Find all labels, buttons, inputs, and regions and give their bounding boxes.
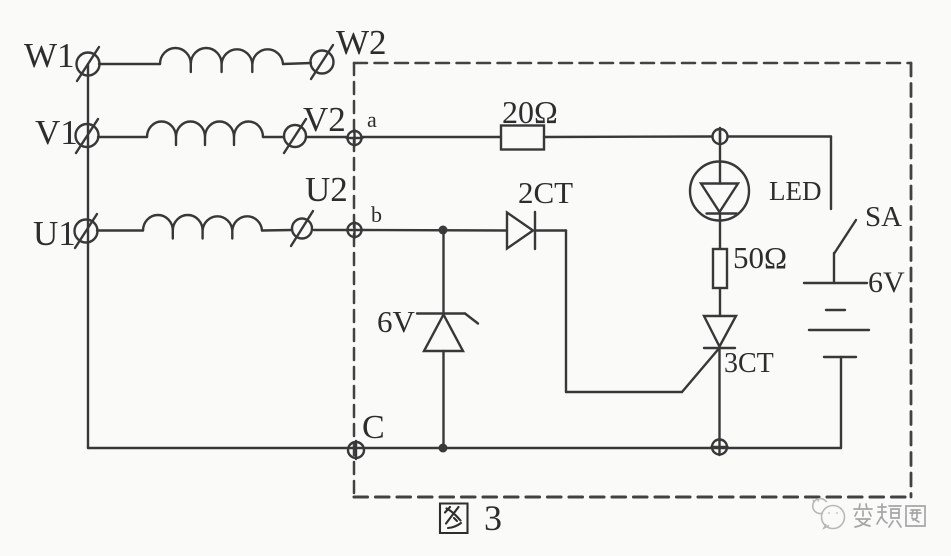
node a terminal [347,130,363,146]
wire U1 to coil [97,229,143,231]
svg-text:6V: 6V [868,266,905,299]
dashed enclosure box [354,63,911,497]
LED top node terminal [713,128,728,145]
wire resistor to thyristor [719,288,721,316]
resistor 20ohm [501,126,544,150]
wire W1 to coil [99,63,160,65]
bottom node terminal [712,439,728,455]
terminal V2 [284,119,306,153]
terminal W1 [77,47,100,81]
thyristor 3CT [704,316,736,348]
terminal U1 [75,214,98,248]
svg-text:3CT: 3CT [724,348,774,379]
wire zener to bottom bus [442,351,444,448]
wire node a to resistor [363,136,502,138]
LED D1 [690,162,749,221]
zener diode 6V [417,314,478,352]
wire node b to diode [363,229,508,232]
svg-text:W1: W1 [24,36,75,75]
svg-text:C: C [362,409,385,446]
wire LED to resistor 50 [719,214,721,250]
wire LED node down to LED [719,129,721,184]
terminal V1 [76,119,99,153]
watermark text 变频圈 [854,504,925,527]
svg-text:6V: 6V [377,304,416,339]
svg-text:W2: W2 [336,23,387,62]
bottom bus wire [88,447,841,449]
terminal U2 [291,211,313,246]
wire coil to U2 [262,229,292,232]
svg-text:2CT: 2CT [518,175,573,210]
svg-text:V2: V2 [303,100,346,139]
wire resistor to LED node [544,135,713,138]
wire V2 to node a [306,136,348,138]
terminal W2 [311,45,334,79]
junction dot at zener tap [439,226,448,235]
svg-text:20Ω: 20Ω [502,94,558,130]
svg-text:U2: U2 [305,170,348,209]
watermark logo [813,499,845,529]
wire gate diagonal to thyristor [682,349,719,392]
wire gate horizontal run [566,391,682,393]
wire right corner down to switch [830,137,832,210]
svg-text:SA: SA [865,201,902,233]
svg-text:3: 3 [484,498,502,538]
wire coil to W2 [283,63,311,64]
svg-text:LED: LED [769,176,821,206]
battery 6V [804,283,869,357]
svg-text:a: a [367,107,377,132]
wire diode to corner [535,229,566,231]
node b terminal [347,222,363,238]
node C terminal [348,441,364,459]
wire thyristor to bottom node [718,348,720,440]
svg-text:V1: V1 [35,113,78,152]
wire V1 to coil [98,136,147,138]
winding W (inductor) [160,48,283,72]
diode 2CT [507,212,535,249]
left bus wire (W1-V1-U1 common) [87,64,89,448]
svg-text:U1: U1 [33,214,76,253]
switch SA [834,220,856,283]
svg-text:50Ω: 50Ω [733,240,787,275]
winding V (inductor) [147,122,263,146]
resistor 50ohm [713,249,727,288]
wire battery to bottom bus [840,357,842,448]
wire U2 to node b [314,229,348,231]
wire coil to V2 [263,136,284,138]
wire down from diode cathode [565,231,567,393]
winding U (inductor) [143,215,262,239]
svg-text:b: b [371,202,382,227]
wire LED node to right corner [728,135,832,137]
wire zener tap down [442,230,444,313]
caption 图 3 [440,504,468,534]
junction dot bottom bus [439,444,448,453]
